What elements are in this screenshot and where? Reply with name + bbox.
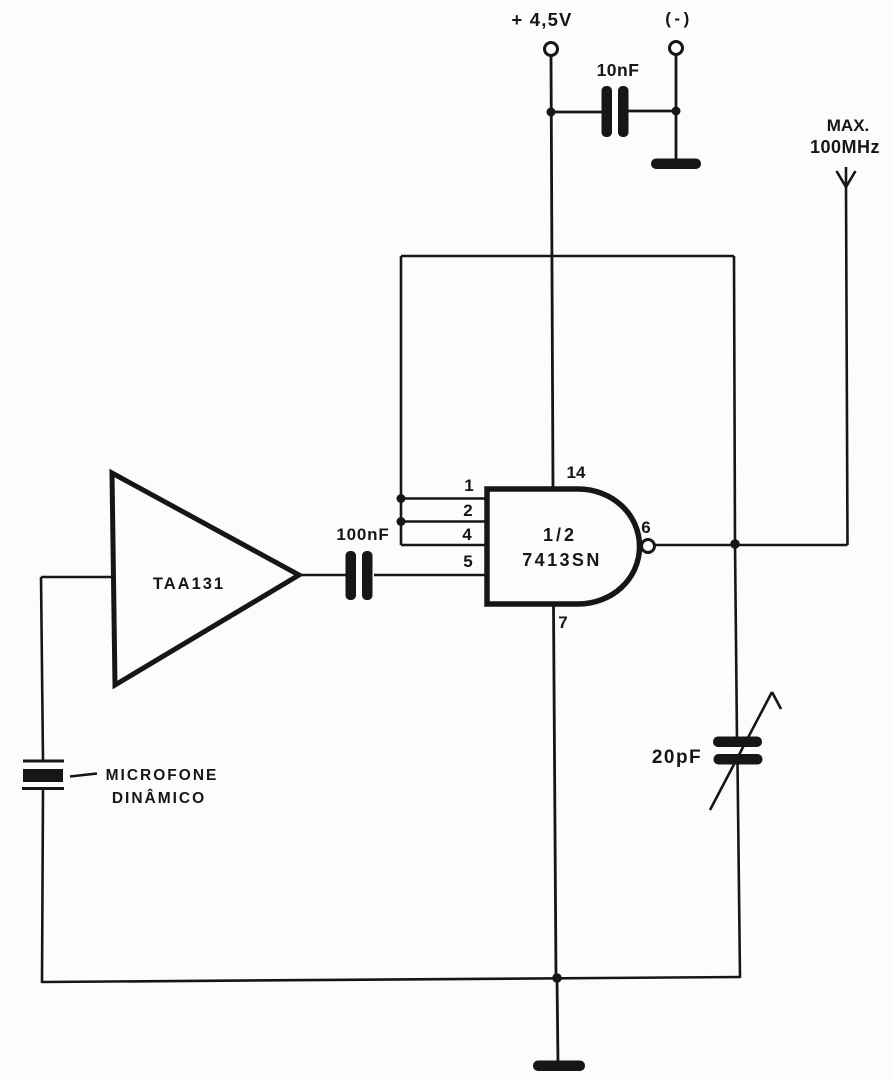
wire output down to 20pF [735,544,737,740]
wire pin 4 [401,544,487,547]
wire 10nF right [628,110,676,113]
ground top [651,159,701,170]
svg-text:MAX.: MAX. [827,116,870,135]
wire feedback top [401,255,734,258]
wire pin 1 [401,497,487,500]
wire 20pF down [738,762,741,978]
node junction (-)/10nF [672,107,681,116]
node pin1 junction [397,494,406,503]
wire V+ vertical lower (pin7 to bottom) [554,606,557,979]
wire output pin6 [655,544,848,547]
capacitor C3 20pF variable [713,737,763,765]
node junction V+/10nF [547,108,556,117]
svg-text:5: 5 [463,552,472,571]
op-amp U1 TAA131 [112,473,299,685]
capacitor 10nF [602,86,629,137]
wire to 10nF left [551,111,603,114]
svg-text:2: 2 [463,501,472,520]
svg-text:10nF: 10nF [597,60,640,80]
svg-text:(-): (-) [665,9,692,28]
svg-text:6: 6 [641,518,650,537]
microphone MIC1 [22,761,64,789]
terminal +4,5V [545,43,558,56]
wire mic input vertical [41,577,43,761]
gate U2 7413 NAND [487,489,640,604]
svg-text:100nF: 100nF [336,525,389,544]
mic pointer dash [70,774,97,777]
wire bottom bus [42,977,740,982]
wire pin 2 [401,520,487,523]
wire antenna vertical [846,187,848,545]
terminal (-) [670,42,683,55]
capacitor 100nF [346,551,373,600]
svg-text:7: 7 [558,613,567,632]
node pin2 junction [397,517,406,526]
svg-text:7413SN: 7413SN [522,550,601,570]
svg-text:14: 14 [567,463,586,482]
svg-text:20pF: 20pF [652,747,702,768]
wire feedback right vertical [734,256,735,544]
wire amp output [297,574,347,577]
svg-text:MICROFONE: MICROFONE [106,767,219,784]
ground bottom [533,1061,585,1072]
wire mic down [42,790,43,983]
svg-text:4: 4 [462,525,472,544]
wire ground stem [557,978,558,1063]
wire (-) down [675,55,678,162]
node bottom junction [552,973,562,983]
svg-text:1/2: 1/2 [543,525,577,545]
variable arrow [710,692,781,810]
svg-text:100MHz: 100MHz [810,137,880,157]
wire feedback left vertical [400,256,403,545]
inverter bubble pin 6 [642,540,655,553]
wire amp input [41,576,112,579]
svg-text:TAA131: TAA131 [153,575,225,593]
node output junction [730,539,740,549]
svg-text:1: 1 [464,476,473,495]
svg-text:DINÂMICO: DINÂMICO [112,789,206,807]
svg-text:+ 4,5V: + 4,5V [511,9,572,30]
wire V+ vertical upper [551,56,553,489]
wire pin 5 [374,574,487,577]
antenna arrow [837,167,856,187]
